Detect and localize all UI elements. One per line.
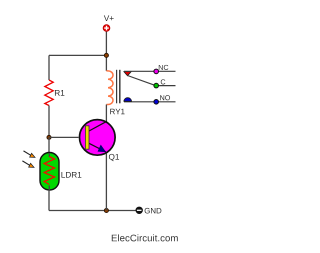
label LDR1 [61,172,81,178]
light arrow 1 head [30,153,35,157]
relay coil RY1 [106,71,113,105]
node junction left [47,135,51,139]
wire emitter rail [105,154,107,211]
label NO [160,95,170,100]
relay NO line [124,101,176,103]
LDR1 zigzag [44,157,54,185]
relay pivot wedge [124,72,131,76]
relay armature diagonal [128,76,155,86]
light arrow 1 shaft [24,151,31,155]
Q1 emitter arrow [98,145,105,152]
wire left rail lower [48,190,50,211]
Q1 emitter line [89,143,106,152]
transistor Q1 body [80,120,116,156]
label GND [145,208,162,214]
watermark ElecCircuit.com [112,234,178,241]
relay core line 2 [119,70,121,104]
node junction top [104,53,108,57]
label Q1 [109,154,119,161]
wire left rail middle [48,106,50,138]
contact C dot [154,83,159,88]
wire base [49,136,79,138]
wire stub inside LDR bottom [48,186,50,191]
relay armature dome [124,98,132,102]
label RY1 [110,109,124,114]
wire V+ stem [105,32,107,56]
wire left rail to LDR [48,137,50,153]
contact NO dot [154,100,159,105]
wire top horizontal [49,54,106,56]
relay C line [159,85,176,87]
relay NC line [124,70,176,72]
terminal GND [136,207,143,214]
Q1 base bar [85,126,89,149]
contact NC dot [154,69,159,74]
light arrow 2 head [29,163,34,167]
wire coil bottom to collector [105,105,107,123]
label R1 [55,90,64,96]
Q1 collector line [89,121,107,131]
terminal V+ [103,25,110,32]
light arrow 2 shaft [22,161,29,165]
label V+ [104,15,114,21]
resistor R1 [45,80,53,106]
wire bottom horizontal [49,210,136,212]
wire coil top stub [105,55,107,71]
wire stub inside LDR top [48,153,50,157]
label NC [159,65,169,70]
node junction bottom [104,208,108,212]
LDR1 body [40,153,59,191]
relay core line 1 [116,70,118,104]
wire left rail upper [48,55,50,80]
label C [161,79,166,84]
